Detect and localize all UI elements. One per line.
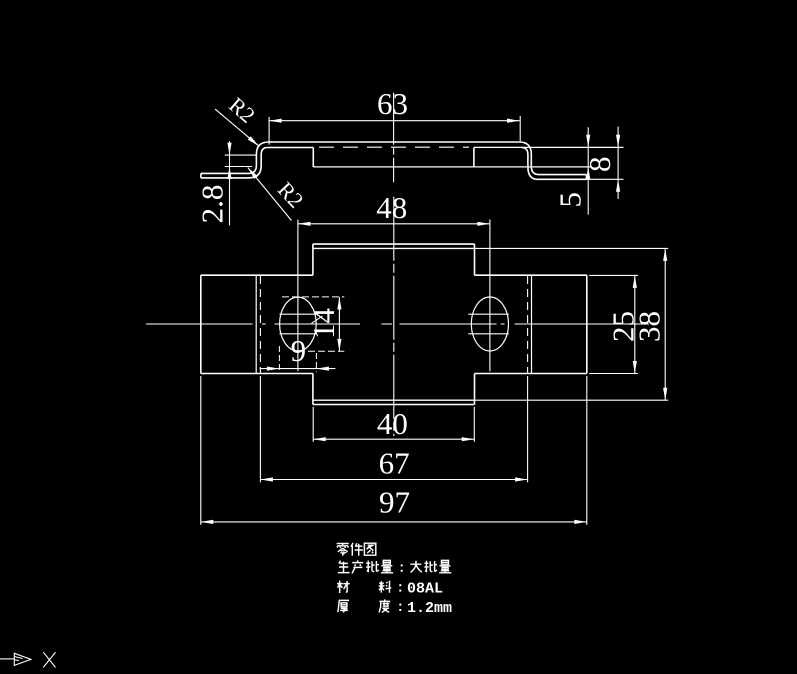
dim 40 arrow left (313, 437, 326, 441)
dim 5 arrow top (586, 135, 590, 148)
right hole chord upper (468, 313, 509, 315)
dim 2.8 ext top (225, 154, 257, 156)
note line1 零件图 (337, 544, 349, 556)
svg-text:14: 14 (306, 308, 341, 340)
dim 25 ext top (589, 274, 638, 276)
dim 2.8 ext bottom (225, 166, 253, 168)
dim 97 line (201, 521, 587, 523)
dim 67 arrow right (515, 477, 528, 481)
plan view left wing bottom edge (201, 373, 313, 375)
dim 97 ext right (586, 376, 588, 525)
leader R2 upper arrowhead (248, 136, 259, 146)
side view hidden dashed line (319, 146, 469, 148)
ucs axis line (0, 658, 14, 660)
plan vertical centerline (393, 197, 395, 436)
ucs arrowhead hatch (14, 657, 22, 661)
side view right joggle upper surface (519, 142, 586, 175)
dim 2.8 arrow bottom (227, 167, 231, 180)
dim 63 ext left (268, 117, 270, 145)
dim 14 arrow top (337, 297, 341, 310)
side view top surface bottom line left (267, 147, 313, 149)
plan view dim38 bottom ext (475, 399, 669, 401)
svg-text:08AL: 08AL (407, 581, 443, 598)
dim 14 ext top (282, 296, 344, 298)
side view right tab bottom ext for dim 8 (586, 178, 623, 180)
svg-text:40: 40 (377, 406, 408, 441)
dim 9 line (260, 368, 336, 370)
dim 97 arrow left (201, 520, 214, 524)
side view left joggle outer surface (201, 142, 269, 173)
plan view top tab right edge (474, 244, 476, 275)
plan view right wing top edge (475, 274, 587, 276)
dim 2.8 arrow top (227, 143, 231, 156)
svg-text:38: 38 (632, 311, 667, 342)
plan view bottom tab bottom edge (313, 404, 475, 406)
dim 38 arrow top (663, 248, 667, 261)
plan view top tab bend line (313, 247, 475, 249)
note line4 厚 度：1.2mm (338, 600, 349, 612)
svg-text:2.8: 2.8 (195, 185, 230, 224)
plan view bottom tab right edge (474, 374, 476, 405)
note line2 生产批量：大批量 (338, 561, 350, 573)
side view right joggle lower surface (521, 148, 586, 180)
dim 9 arrow left (267, 367, 280, 371)
dim 14 arrow bottom (337, 339, 341, 352)
dim 9 ext left (278, 346, 280, 372)
dim 8 line (617, 127, 619, 199)
left hole chord lower (279, 333, 316, 335)
dim 67 ext left (259, 376, 261, 482)
dim 63 arrow left (269, 119, 282, 123)
dim 63 arrow right (507, 119, 520, 123)
dim 48 line (298, 223, 490, 225)
dim 14 ext bottom (308, 350, 344, 352)
dim 14 leader tick (311, 316, 322, 324)
plan view top tab left edge (312, 244, 314, 275)
svg-text:67: 67 (379, 446, 410, 481)
leader R2 lower arrowhead (248, 168, 258, 179)
svg-text:8: 8 (582, 157, 617, 173)
svg-text:5: 5 (553, 192, 588, 208)
dim 40 arrow right (462, 437, 475, 441)
dim 48 arrow right (477, 222, 490, 226)
left hole chord upper (279, 313, 316, 315)
plan view right wing outer edge (586, 275, 588, 373)
plan view right bend tangent line (531, 275, 533, 373)
side view left tab end edge (200, 173, 202, 178)
svg-text:9: 9 (291, 333, 307, 368)
main horizontal centerline (146, 323, 649, 325)
dim 40 ext left (312, 407, 314, 442)
side view top surface top line (269, 141, 520, 143)
plan view left wing top edge (201, 274, 313, 276)
dim 5 line (587, 127, 589, 214)
leader R2 upper (215, 109, 259, 146)
left hole ellipse (280, 297, 317, 351)
dim 67 arrow left (260, 477, 273, 481)
note line3 材 料：08AL (337, 581, 350, 593)
dim 25 arrow bottom (633, 361, 637, 374)
plan view left wing outer edge (200, 275, 202, 373)
dim 25 ext bottom (589, 373, 638, 375)
svg-text:97: 97 (379, 485, 410, 520)
dim 63 ext right (519, 116, 521, 141)
plan view top tab top edge (313, 243, 475, 245)
dim 67 line (260, 479, 527, 481)
dim 67 ext right (527, 376, 529, 482)
right hole ellipse (471, 297, 508, 351)
side view vertical centerline (393, 93, 395, 183)
plan view bottom tab left edge (312, 374, 314, 405)
dim 38 line (664, 248, 666, 400)
svg-text:1.2mm: 1.2mm (407, 600, 452, 617)
side view center tab rect left edge (312, 148, 314, 168)
dim 63 line (269, 120, 519, 122)
plan view bottom tab bend line (313, 399, 475, 401)
ucs X label (43, 652, 55, 667)
dim 97 ext left (200, 376, 202, 525)
dim 5 arrow bottom (586, 167, 590, 180)
svg-text:63: 63 (377, 86, 408, 121)
side view left joggle inner surface (201, 148, 268, 178)
dim 38 arrow bottom (663, 388, 667, 401)
dim 48 arrow left (298, 222, 311, 226)
dimension texts (195, 86, 667, 520)
right hole chord lower (468, 333, 509, 335)
left hole vertical centerline / dim48 ext (297, 220, 299, 372)
plan view left bend hidden line (259, 276, 261, 373)
ucs arrowhead (14, 653, 31, 665)
dim 97 arrow right (574, 520, 587, 524)
dim 25 arrow top (633, 275, 637, 288)
side view center tab bottom line + ext for dim 5 (313, 166, 592, 168)
leader R2 lower (248, 168, 292, 221)
dim 2.8 line (229, 141, 231, 225)
plan view right bend hidden line (527, 276, 529, 373)
dim 9 arrow right (316, 367, 329, 371)
side view center tab rect right edge (473, 148, 475, 167)
right hole vertical centerline / dim48 ext (489, 220, 491, 372)
svg-text:R2: R2 (224, 92, 260, 128)
svg-text:R2: R2 (273, 177, 309, 213)
dim 14 line (338, 297, 340, 351)
plan view dim38 top ext (475, 247, 669, 249)
UCS icon (0, 652, 56, 667)
dim 8 arrow bottom (616, 179, 620, 192)
dim 8 arrow top (616, 135, 620, 148)
dim 40 ext right (473, 407, 475, 442)
dim 25 line (634, 275, 636, 373)
svg-text:48: 48 (376, 190, 407, 225)
side view right tab end edge (585, 175, 587, 180)
plan view left bend tangent line (255, 275, 257, 373)
side view top surface bottom line right + ext for dims 5,8 (474, 146, 624, 148)
dim 9 ext right (315, 353, 317, 372)
plan view right wing bottom edge (475, 373, 587, 375)
dim 40 line (313, 438, 474, 440)
